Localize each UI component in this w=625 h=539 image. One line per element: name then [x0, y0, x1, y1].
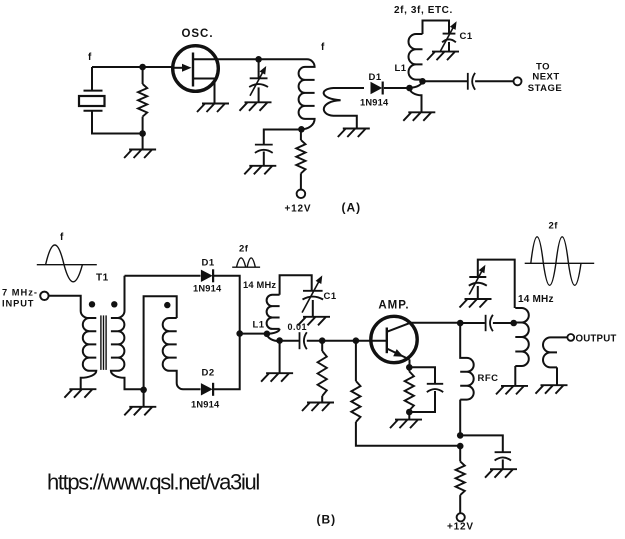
terminal input B [40, 292, 48, 300]
diode D1 section B [201, 269, 213, 282]
ground L1 section A [403, 112, 435, 121]
label D2 section B [202, 368, 215, 379]
ground C1 section A [427, 52, 459, 61]
label D1 section B [202, 257, 215, 268]
label f transformer A [321, 42, 325, 53]
capacitor C6 decoupling [495, 452, 511, 469]
svg-text:(B): (B) [317, 513, 337, 527]
wire D1 to node [213, 276, 240, 334]
svg-text:C1: C1 [460, 31, 473, 42]
label f input [60, 232, 64, 243]
label AMP. [378, 300, 409, 312]
ground crystal network [124, 150, 156, 159]
node L1 diode tap [406, 85, 413, 92]
label 0.01 [288, 322, 308, 332]
node T1 secondary phase dot [111, 301, 117, 307]
wire cap to terminal [475, 80, 513, 82]
capacitor C1 section B variable [302, 275, 323, 316]
svg-text:f: f [321, 42, 325, 53]
svg-text:D1: D1 [369, 72, 382, 83]
svg-text:7 MHz-: 7 MHz- [2, 288, 38, 298]
wire L1B ground stem [279, 362, 281, 373]
transistor Q1 OSC JFET [173, 46, 219, 104]
label 1N914 D1 B [193, 283, 222, 293]
svg-text:14 MHz: 14 MHz [243, 280, 276, 290]
svg-text:f: f [88, 52, 92, 63]
wire tank top loop [478, 260, 515, 308]
svg-text:+12V: +12V [285, 204, 312, 215]
svg-text:1N914: 1N914 [360, 98, 389, 108]
node emitter junction [406, 364, 413, 371]
label 7 MHz- INPUT [2, 288, 38, 309]
ground T1 center tap [124, 407, 156, 416]
label D1 section A [369, 72, 382, 83]
node decoupling junction 2 [457, 443, 464, 450]
wire gate node A [92, 66, 173, 68]
svg-text:INPUT: INPUT [2, 299, 34, 309]
terminal TO NEXT STAGE [514, 77, 522, 85]
diode D2 section B [201, 383, 213, 396]
label 14MHz output [518, 294, 554, 305]
wire L1 tap curves [410, 81, 423, 112]
resistor R6 supply B [456, 446, 465, 513]
label +12V section A [285, 204, 312, 215]
inductor T1 secondary lower [144, 296, 201, 390]
wire L1B tap curves [267, 329, 280, 362]
label 2f 3f ETC [394, 5, 453, 16]
ground C3 [244, 166, 276, 175]
wire emitter gnd stem [408, 412, 410, 419]
node diode junction [236, 330, 243, 337]
ground T1 primary [64, 389, 96, 398]
inductor RFC [460, 323, 474, 400]
label TO NEXT STAGE [528, 62, 563, 95]
capacitor C1 section A variable [440, 21, 456, 51]
label 14MHz left [243, 280, 276, 290]
svg-text:1N914: 1N914 [191, 400, 220, 410]
node gate junction [139, 64, 146, 71]
inductor output tank 14MHz [515, 308, 529, 386]
node output tank tap [510, 320, 517, 327]
svg-text:OUTPUT: OUTPUT [576, 334, 617, 345]
label 2f output [549, 220, 559, 231]
capacitor 0.01 coupling [300, 332, 307, 349]
label (B) [317, 513, 337, 527]
wire input to T1 [49, 296, 81, 311]
resistor R5 emitter [405, 367, 414, 412]
label T1 [96, 273, 109, 284]
label url [47, 470, 259, 495]
node T1 center tap junction [140, 387, 147, 394]
node R3 junction [319, 337, 326, 344]
label OUTPUT [576, 334, 617, 345]
wire emitter cap top [409, 367, 435, 384]
label 1N914 section A [360, 98, 389, 108]
inductor L1 section B [267, 275, 312, 329]
node T1 tertiary phase dot [164, 302, 170, 308]
wire D2 to node [213, 334, 240, 390]
svg-text:D2: D2 [202, 368, 215, 379]
svg-text:AMP.: AMP. [378, 300, 409, 312]
svg-text:2f: 2f [549, 220, 559, 231]
ground emitter [390, 420, 422, 429]
wire R1 to ground [142, 134, 144, 150]
label 2f small [239, 244, 249, 255]
svg-text:2f: 2f [239, 244, 249, 255]
node emitter network bottom [406, 409, 413, 416]
label f crystal [88, 52, 92, 63]
wire decoupling cap branch [460, 435, 503, 452]
wire D1 input [125, 275, 201, 277]
waveform 2f humps [232, 258, 260, 267]
terminal OUTPUT [567, 334, 574, 341]
node T1 primary phase dot [89, 301, 95, 307]
ground C8 [460, 299, 492, 308]
wire RFC bottom [459, 400, 461, 436]
node L1 output tap [419, 78, 426, 85]
terminal +12V section B [457, 513, 465, 521]
wire L1 to coupling cap [423, 80, 468, 82]
svg-text:1N914: 1N914 [193, 283, 222, 293]
capacitor C4 output coupling A [468, 73, 475, 90]
svg-text:2f, 3f, ETC.: 2f, 3f, ETC. [394, 5, 453, 16]
label 1N914 D2 B [191, 400, 220, 410]
svg-text:T1: T1 [96, 273, 109, 284]
wire center tap ground [143, 390, 145, 407]
node base bias junction [353, 337, 360, 344]
svg-text:https://www.qsl.net/va3iul: https://www.qsl.net/va3iul [47, 470, 259, 495]
ground L1 section B [261, 373, 293, 382]
ground C2 [240, 102, 272, 111]
svg-text:+12V: +12V [447, 522, 474, 533]
wire D1 to L1 tap [384, 87, 407, 89]
ground C1 section B [298, 317, 330, 326]
waveform 2f output sine [525, 237, 595, 286]
capacitor C5 emitter bypass [409, 384, 443, 412]
wire tank to bypass cap [264, 130, 302, 145]
resistor R2 drain supply [296, 130, 305, 190]
capacitor C3 bypass A [255, 145, 273, 166]
resistor R4 base bias [351, 341, 460, 446]
label L1 section B [253, 320, 265, 331]
label C1 section B [324, 291, 337, 302]
inductor T-A primary tank [299, 59, 315, 129]
svg-text:RFC: RFC [478, 373, 499, 384]
svg-text:14 MHz: 14 MHz [518, 294, 554, 305]
wire coupling to tank tap [493, 322, 514, 324]
wire crystal bottom [92, 111, 143, 134]
svg-text:D1: D1 [202, 257, 215, 268]
label L1 section A [395, 63, 407, 74]
inductor L1 section A [409, 21, 449, 80]
wire collector to coupling cap [460, 322, 485, 324]
svg-text:(A): (A) [342, 201, 362, 215]
svg-text:C1: C1 [324, 291, 337, 302]
ground output tank [496, 386, 528, 395]
svg-text:L1: L1 [253, 320, 265, 331]
svg-text:0.01: 0.01 [288, 322, 308, 332]
waveform f input sine [37, 245, 97, 282]
wire drain to tank [217, 58, 307, 60]
wire 0.01 to base [307, 340, 371, 342]
ground Q1 source [197, 104, 229, 113]
capacitor C7 collector coupling [486, 315, 493, 331]
transistor Q2 AMP NPN [371, 316, 417, 367]
label (A) [342, 201, 362, 215]
wire L1B to 0.01 cap [280, 340, 299, 342]
wire crystal top [91, 67, 93, 91]
diode D1 section A [371, 82, 383, 95]
svg-text:NEXT: NEXT [532, 72, 559, 83]
capacitor C2 variable feedback [249, 59, 268, 102]
ground output link [536, 385, 568, 394]
svg-text:OSC.: OSC. [181, 28, 213, 40]
resistor R1 gate [138, 67, 147, 134]
node decoupling junction 1 [457, 432, 464, 439]
node R1 bottom junction [139, 130, 146, 137]
node drain junction [255, 56, 262, 63]
crystal Y1 [79, 91, 105, 111]
ground T-A secondary [338, 129, 370, 138]
node tank bottom junction [298, 126, 305, 133]
ground R3 [302, 403, 334, 412]
resistor R3 base shunt [318, 341, 327, 403]
svg-text:L1: L1 [395, 63, 407, 74]
ground C6 [485, 469, 517, 478]
svg-text:STAGE: STAGE [528, 83, 563, 94]
wire diode node to L1 tap [240, 333, 267, 335]
wire collector [410, 322, 460, 324]
core T1 laminations [101, 315, 106, 370]
inductor T1 secondary upper [111, 276, 144, 390]
label OSC. [181, 28, 213, 40]
inductor T-A secondary link [324, 88, 364, 128]
label RFC [478, 373, 499, 384]
node collector junction [457, 320, 464, 327]
node L1B input tap [264, 331, 271, 338]
inductor output link [543, 337, 568, 385]
label +12V section B [447, 522, 474, 533]
label C1 section A [460, 31, 473, 42]
inductor T1 primary [81, 311, 97, 389]
terminal +12V section A [297, 190, 306, 199]
capacitor C8 output variable [469, 265, 487, 299]
svg-text:f: f [60, 232, 64, 243]
node L1B output tap [276, 337, 283, 344]
